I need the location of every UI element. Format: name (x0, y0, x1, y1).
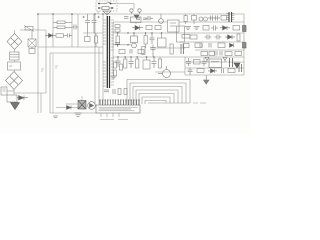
resistor R926 (182, 35, 190, 39)
staircase wire 3 (133, 87, 182, 105)
wire x53 down (52, 53, 54, 113)
zener stem 1 (205, 58, 209, 63)
wire y48 right (195, 49, 244, 51)
twin bars right (239, 64, 242, 72)
wire degauss top (20, 29, 46, 31)
capacitor C926 (215, 51, 217, 56)
switch box S901 dashed (96, 1, 117, 11)
transistor Q911 (131, 33, 138, 48)
diode D911 (132, 26, 143, 31)
resistor R931 (225, 52, 232, 56)
relay RL901 contacts (130, 9, 141, 14)
capacitor C943 (188, 68, 193, 76)
resistor R930 (201, 52, 208, 56)
wire right bus y22 (113, 21, 168, 23)
capacitor C932 hang (129, 57, 134, 68)
wire mains line from switch (117, 3, 134, 5)
resistor R929 (218, 43, 225, 48)
ground dark right (234, 63, 240, 68)
IC901 bottom pins (101, 113, 119, 117)
resistor R901 (53, 21, 72, 24)
box right of relay (177, 26, 185, 42)
wire main top AC bus (38, 13, 244, 15)
capacitor C924 (215, 35, 222, 40)
ground g922 (194, 27, 200, 30)
staircase wire 6 (142, 97, 170, 104)
diode D905 (67, 106, 72, 110)
label mark mid (41, 69, 44, 71)
capacitor C931 hang (116, 57, 121, 67)
capacitor C928 (220, 51, 222, 56)
staircase wire 5 (139, 94, 174, 105)
resistor R923 (221, 16, 227, 21)
photocoupler Q921 (199, 17, 208, 21)
resistor R941 (194, 60, 201, 65)
resistor R938 (209, 52, 215, 56)
diode D922 (225, 35, 235, 39)
ground left (11, 102, 20, 110)
resistor R922 (192, 14, 197, 24)
wire vertical x78 (77, 14, 79, 47)
capacitor C923 (205, 35, 212, 40)
dark pad right rail 1 (243, 26, 247, 32)
wire y48 partial (150, 47, 185, 49)
transistor Q912 (159, 14, 164, 23)
ground small left (53, 116, 58, 118)
resistor R921 (184, 14, 187, 24)
capacitor C916 (115, 43, 120, 45)
wire second left drop (45, 30, 47, 93)
wire degauss bottom (14, 92, 46, 94)
capacitor C944 (222, 69, 224, 74)
bridge rectifier D902 (6, 72, 23, 90)
transformer secondary ticks (111, 20, 114, 85)
junction dots y33 (117, 32, 162, 33)
capacitor C917 (151, 45, 156, 57)
wire left drop 2 (40, 93, 42, 113)
capacitor C921 (208, 16, 220, 21)
staircase wire 7 (145, 101, 166, 105)
wire right bus y22 cont (179, 21, 244, 23)
capacitor C913 (146, 16, 154, 21)
resistor R913 (144, 33, 147, 48)
resistor R919 (170, 44, 173, 54)
resistor R939 (235, 52, 242, 56)
wire y53 (50, 52, 103, 54)
wire x50 down (49, 53, 51, 113)
resistor R933 hang (136, 57, 139, 68)
diode D921 (220, 26, 230, 30)
wire y104 stub (66, 103, 78, 105)
wire left chain vertical (14, 30, 16, 34)
capacitor C927 (200, 44, 202, 48)
wire y47 (38, 46, 103, 48)
wire right bus y57 (113, 56, 244, 58)
capacitor C941 (186, 58, 191, 66)
wire (14, 70, 16, 72)
wire y33 left of transformer (83, 32, 103, 34)
wire left into driver (56, 107, 78, 109)
capacitor C903 (72, 25, 78, 30)
wire right bus y42 (180, 41, 244, 43)
thermistor TH901 (24, 26, 34, 32)
IC901 pins top (100, 101, 139, 106)
capacitor C901 block (8, 62, 21, 70)
capacitor C915 (130, 49, 132, 54)
wire drop to bus (133, 4, 135, 10)
resistor R918 (142, 47, 145, 55)
fuse F901 (98, 7, 114, 10)
transistor Q901 (88, 102, 96, 110)
wire y72 (155, 71, 185, 73)
ground under driver (75, 113, 82, 117)
capacitor C912 (150, 33, 155, 44)
capacitor C902 (67, 34, 73, 38)
resistor R905 (95, 33, 98, 47)
bridge rectifier D901 (7, 34, 22, 50)
diode D904 (45, 34, 53, 38)
relay coil (131, 15, 142, 23)
varistor below switch (103, 11, 111, 15)
resistor R935 hang (159, 57, 162, 68)
capacitor C925 (209, 43, 211, 48)
capacitor C905 electrolytic (92, 14, 100, 33)
resistor R928 (195, 43, 202, 48)
wire stub to connector (7, 90, 14, 92)
resistor R914 (146, 26, 152, 30)
wire right bus y68 (185, 67, 244, 69)
twin bars mid (181, 44, 184, 54)
switch contact dots (99, 2, 116, 4)
small comps above IC (104, 89, 127, 95)
transformer T921 small (229, 12, 232, 22)
wire right bus y75 (185, 74, 244, 76)
label text 5V (193, 102, 206, 104)
capacitor C933 hang (152, 57, 157, 68)
IC901 body (96, 105, 140, 113)
resistor R943 (228, 69, 235, 73)
capacitor C942 (202, 58, 207, 66)
wire x95 (94, 14, 96, 104)
junction dots top bus (37, 13, 104, 15)
transformer core (107, 16, 109, 88)
staircase wire 4 (136, 90, 178, 104)
resistor R927 (237, 34, 240, 41)
driver block dark (78, 101, 86, 110)
resistor R912 (116, 33, 119, 47)
wire stub above driver (81, 96, 83, 101)
resistor R916 (119, 50, 125, 54)
staircase wire 2 (130, 83, 186, 104)
capacitor C914 (124, 17, 129, 19)
relay box outline (168, 20, 180, 32)
zener stem 2 (223, 58, 227, 63)
capacitor block mid-left (28, 31, 36, 54)
wire left drop (37, 14, 39, 113)
IC901 label (100, 119, 128, 121)
ground g921 (185, 27, 191, 30)
wire switch down to bus (97, 11, 99, 14)
ground small low (204, 75, 210, 84)
resistor R915 (155, 26, 161, 30)
resistor R936 (190, 35, 197, 39)
transformer winding left ticks (103, 20, 106, 86)
wire right bus y33 (113, 32, 244, 34)
wire right block left edge (112, 22, 114, 74)
resistor R925 (233, 26, 240, 31)
capacitor C922 (211, 26, 218, 31)
wire x185 vertical (184, 57, 186, 75)
wire (13, 90, 15, 96)
wire (14, 60, 16, 62)
resistor R937 (183, 44, 189, 48)
capacitor C904 electrolytic (83, 14, 91, 33)
wire x99 (98, 47, 100, 104)
posistor box (7, 95, 17, 102)
connector left edge (1, 87, 7, 95)
IC941 box (209, 59, 222, 68)
resistor R904 (85, 33, 91, 42)
wire relay drop (135, 23, 137, 25)
switch terminal dots (98, 3, 113, 9)
diode D941 (208, 69, 217, 73)
resistor R902 (53, 26, 72, 29)
wire vertical x72 (71, 14, 73, 47)
diode D923 (230, 43, 234, 47)
IC911 box (158, 33, 167, 47)
dark pad right rail 2 (243, 43, 247, 49)
transistor Q931 (158, 66, 171, 78)
capacitor C911 (136, 18, 147, 20)
staircase bottom bus (148, 102, 190, 104)
resistor R917 (138, 50, 144, 54)
staircase wire 1 (127, 80, 190, 105)
label mark mid2 (55, 66, 58, 68)
wire y44.8 short (113, 44, 131, 46)
twin bars (230, 58, 233, 67)
resistor R942 (197, 69, 204, 73)
transformer T901 primary lead (102, 14, 104, 104)
resistor R903 (53, 34, 67, 37)
ground under x113 (111, 74, 117, 79)
wire bottom y113 (50, 112, 97, 114)
diode D903 (17, 96, 28, 101)
resistor R932 hang (124, 57, 127, 68)
wire (14, 50, 16, 53)
IC901 pin caps (99, 99, 140, 101)
resistor R934 box (143, 57, 150, 69)
wire right edge vertical (243, 14, 245, 75)
junction dots y57 (117, 56, 154, 57)
resistor R911 (115, 25, 120, 33)
resistor chain right of core (114, 62, 123, 76)
wire right bus y62 (185, 61, 244, 63)
coil L901 (10, 52, 20, 60)
junction dots y44 (117, 44, 129, 45)
winding ticks T921 (227, 14, 235, 20)
resistor R924 (203, 26, 209, 31)
wire vertical x53 (52, 14, 54, 47)
